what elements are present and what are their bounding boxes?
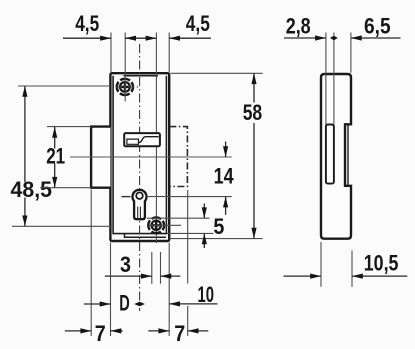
svg-text:3: 3 [120, 252, 131, 277]
keyhole centerline (dash-dot) [139, 44, 141, 311]
svg-text:21: 21 [46, 143, 65, 168]
screw2 centerline horizontal [149, 224, 181, 226]
bolt slot inner detail [139, 137, 159, 143]
svg-text:4,5: 4,5 [75, 11, 99, 36]
ext line keyhole center right [147, 196, 232, 198]
svg-text:10: 10 [198, 282, 215, 307]
side view hidden channel lines [326, 33, 334, 125]
lock plate outer contour [110, 73, 169, 241]
follower reference line [70, 156, 232, 158]
svg-text:6,5: 6,5 [364, 14, 391, 39]
dim 3 [105, 275, 181, 277]
screw1 [117, 79, 133, 95]
svg-text:58: 58 [243, 100, 263, 125]
keyhole inner circle [136, 192, 143, 199]
screw1 centerline horizontal [116, 86, 139, 88]
svg-text:7: 7 [95, 321, 106, 346]
nose (left protrusion) [91, 127, 110, 188]
ext line plate left top [110, 33, 112, 73]
bolt slot outer [124, 133, 160, 146]
keyhole [133, 190, 147, 219]
svg-text:2,8: 2,8 [286, 14, 311, 39]
dim 5 [203, 204, 205, 249]
lock plate inner contour [113, 76, 166, 234]
ext lines 48,5 [12, 86, 112, 226]
screw2 centerline vertical [155, 33, 157, 244]
side view slot [326, 125, 334, 184]
svg-text:48,5: 48,5 [11, 177, 53, 202]
screw2 [148, 217, 164, 233]
dim 10,5 [321, 242, 352, 287]
svg-text:D: D [119, 291, 130, 316]
ext lines 21 [40, 127, 91, 188]
dim 58 [253, 73, 255, 238]
dim 48,5 [24, 86, 26, 226]
dim 7 right [148, 330, 208, 332]
ext verticals bottom [91, 190, 169, 337]
svg-text:14: 14 [214, 163, 235, 188]
side view outer contour [321, 74, 351, 239]
keyhole centerline left dash [122, 196, 131, 198]
svg-text:7: 7 [174, 321, 185, 346]
dim 14 [225, 142, 227, 215]
ext lines 5 [147, 218, 214, 233]
dim 10 [169, 303, 217, 305]
dim 2,8 / 6,5 [284, 37, 401, 39]
side view notch inner line [347, 125, 349, 185]
keyhole shaft inner lines [138, 207, 141, 219]
ext line plate right top [168, 33, 170, 73]
bottom lip line [125, 234, 167, 238]
ext lines 58 [171, 73, 263, 238]
dim 4,5 left [63, 37, 211, 39]
svg-text:10,5: 10,5 [364, 251, 399, 276]
dim 21 [54, 127, 56, 188]
dim D [84, 303, 111, 305]
dim 7 left [65, 330, 123, 332]
ext line screw1 center [124, 33, 126, 102]
svg-text:5: 5 [213, 214, 224, 239]
svg-text:4,5: 4,5 [186, 11, 210, 36]
alternative nose position (dash-dot box) [169, 127, 187, 187]
